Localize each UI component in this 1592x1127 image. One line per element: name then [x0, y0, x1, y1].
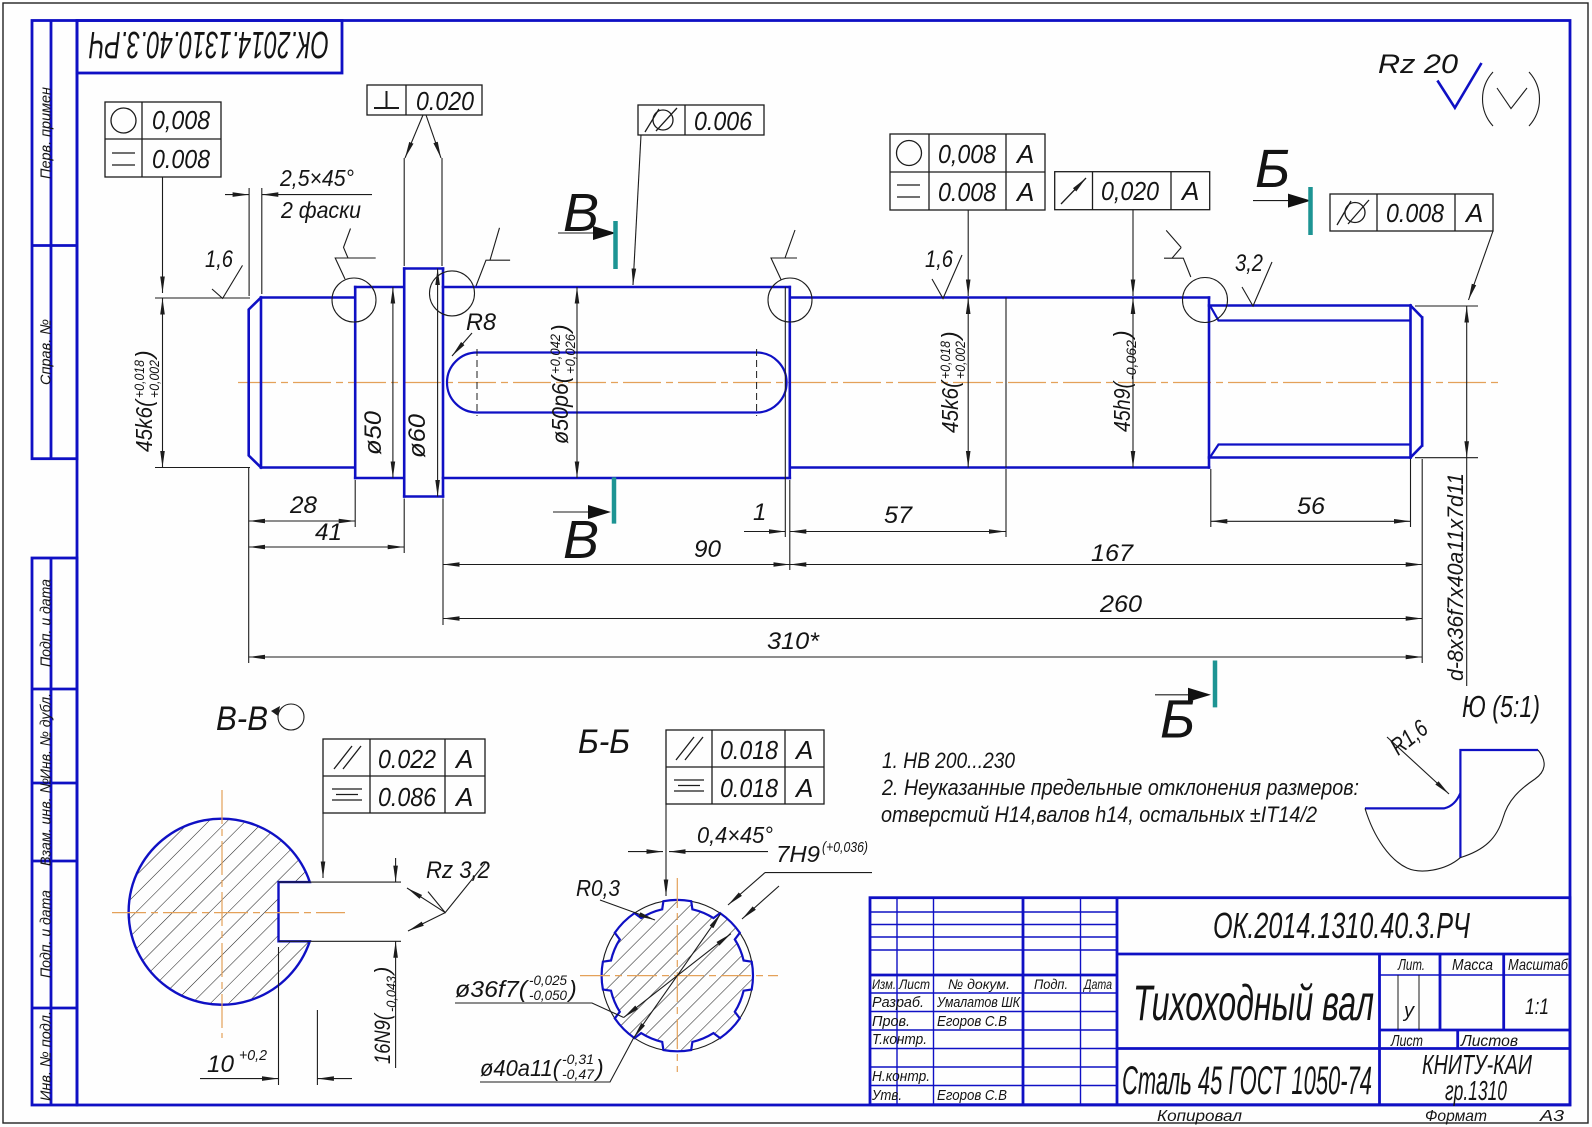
dimension 57	[790, 502, 1006, 532]
tolerance frame circularity/profile left journal	[105, 102, 221, 293]
dimension 41	[249, 519, 405, 547]
keyway depth 10+0,2	[278, 947, 280, 1085]
svg-text:Подп. и дата: Подп. и дата	[38, 579, 55, 667]
shaft collar d60	[404, 269, 443, 497]
tolerance frame V-V	[323, 739, 485, 813]
keyway slot	[447, 349, 787, 416]
16N9 dimension	[395, 858, 397, 882]
section mark B bottom	[553, 477, 614, 570]
svg-text:Изм.: Изм.	[872, 976, 896, 992]
dimension 28	[249, 492, 356, 521]
dimension 90	[443, 536, 790, 565]
svg-text:+0,2: +0,2	[239, 1047, 268, 1064]
shaft section d50	[355, 287, 404, 478]
left stamp boxes group 1	[32, 21, 77, 459]
svg-text:ø36f7(: ø36f7(	[455, 976, 530, 1002]
svg-text:ø50р6(: ø50р6(	[547, 374, 573, 444]
svg-text:45k6(: 45k6(	[937, 379, 963, 433]
surface mark circle at step 2	[430, 228, 511, 316]
svg-text:0,008: 0,008	[938, 139, 996, 169]
svg-text:В: В	[563, 510, 599, 570]
svg-text:+0,026: +0,026	[562, 334, 578, 374]
centerlines	[580, 975, 778, 977]
svg-text:+0,018: +0,018	[131, 360, 147, 398]
svg-text:d-8x36f7x40a11x7d11: d-8x36f7x40a11x7d11	[1443, 473, 1468, 681]
title block	[870, 898, 1570, 1125]
dimension d50	[360, 287, 393, 478]
svg-text:0,020: 0,020	[1101, 176, 1159, 206]
Rz 20 general roughness	[1378, 49, 1539, 126]
left table of title block	[896, 898, 898, 1105]
step face 45h9 to spline	[1208, 298, 1211, 468]
tolerance frame perpendicularity collar	[367, 85, 482, 266]
svg-text:ОК.2014.1310.40.3.РЧ: ОК.2014.1310.40.3.РЧ	[1213, 905, 1471, 946]
svg-text:Сталь 45 ГОСТ 1050-74: Сталь 45 ГОСТ 1050-74	[1122, 1059, 1372, 1103]
dimension 45h9	[1109, 298, 1139, 468]
svg-text:Б: Б	[1160, 690, 1195, 750]
section view V-V	[112, 700, 490, 1085]
svg-text:2 фаски: 2 фаски	[280, 197, 361, 223]
svg-text:Формат: Формат	[1425, 1108, 1487, 1125]
svg-text:0.018: 0.018	[720, 773, 778, 803]
svg-text:Егоров С.В: Егоров С.В	[937, 1013, 1007, 1030]
svg-text:А: А	[1180, 176, 1199, 206]
boundary 45k6 / 45h9	[1005, 298, 1007, 468]
svg-text:Подп. и дата: Подп. и дата	[38, 890, 55, 978]
svg-text:1: 1	[753, 499, 766, 526]
dimension d50p6 with tolerances	[547, 287, 578, 478]
svg-text:41: 41	[315, 519, 342, 546]
svg-text:(+0,036): (+0,036)	[822, 839, 868, 856]
spline inner diameter lines	[1211, 307, 1411, 457]
svg-text:Тихоходный вал: Тихоходный вал	[1133, 975, 1374, 1031]
section mark B top	[558, 183, 616, 269]
section view B-B (spline)	[455, 723, 872, 1082]
surface mark circle at step 4	[1164, 230, 1228, 322]
chamfer 0,4x45	[628, 851, 663, 853]
svg-text:Rz 20: Rz 20	[1378, 49, 1458, 79]
main centerline	[238, 382, 1498, 384]
keyway radius R8	[452, 309, 497, 356]
chamfer dimension 2,5x45	[225, 165, 372, 296]
svg-text:Лист: Лист	[1390, 1033, 1423, 1050]
svg-text:260: 260	[1099, 591, 1143, 618]
svg-text:1,6: 1,6	[925, 246, 954, 273]
svg-text:28: 28	[289, 492, 318, 519]
extension lines below shaft	[249, 459, 1423, 663]
svg-text:10: 10	[207, 1051, 235, 1078]
svg-text:45h9(: 45h9(	[1109, 380, 1135, 432]
svg-text:1:1: 1:1	[1525, 994, 1549, 1019]
dimension 167	[790, 540, 1422, 567]
tolerance frame circularity/profile right journal	[890, 134, 1045, 296]
svg-text:Подп.: Подп.	[1034, 976, 1068, 992]
svg-text:+0,002: +0,002	[952, 341, 968, 379]
roughness 1,6 left journal	[205, 246, 243, 298]
centerlines	[112, 912, 345, 914]
svg-text:+0,002: +0,002	[146, 360, 162, 398]
svg-text:90: 90	[694, 536, 722, 563]
svg-text:Инв. № подл.: Инв. № подл.	[38, 1011, 55, 1101]
lit sub cells	[1397, 975, 1399, 1030]
svg-text:1. НВ 200...230: 1. НВ 200...230	[882, 748, 1016, 773]
spline section outer	[1209, 306, 1422, 458]
dimension 1	[744, 499, 785, 532]
svg-text:Масса: Масса	[1452, 957, 1493, 974]
svg-text:2,5×45°: 2,5×45°	[279, 165, 354, 191]
step face d50p6 to 45k6	[788, 287, 791, 478]
svg-text:А: А	[794, 735, 813, 765]
svg-text:2. Неуказанные предельные откл: 2. Неуказанные предельные отклонения раз…	[881, 775, 1359, 800]
tolerance frame radial runout 0.006	[633, 105, 764, 285]
break lines freeform	[1365, 750, 1544, 871]
keyway width extension lines	[279, 881, 402, 883]
svg-text:45k6(: 45k6(	[131, 398, 157, 452]
shaft section 45k6 left	[249, 298, 356, 468]
svg-text:А: А	[1015, 177, 1034, 207]
svg-text:ОК.2014.1310.40.3.РЧ: ОК.2014.1310.40.3.РЧ	[89, 23, 329, 65]
svg-text:Т.контр.: Т.контр.	[872, 1031, 927, 1048]
svg-text:R0,3: R0,3	[576, 875, 620, 901]
svg-text:-0,050: -0,050	[529, 987, 567, 1003]
top-left rotated doc number box	[77, 21, 342, 74]
svg-text:+0,018: +0,018	[937, 341, 953, 379]
svg-text:0.086: 0.086	[378, 782, 436, 812]
svg-text:№ докум.: № докум.	[948, 976, 1010, 992]
hatched circle with keyway notch	[129, 819, 310, 1005]
svg-text:0,008: 0,008	[152, 105, 210, 135]
svg-text:Б: Б	[1255, 139, 1290, 199]
surface mark circle at step 1	[332, 229, 376, 323]
svg-text:56: 56	[1297, 493, 1326, 520]
shaft section 45k6 right	[790, 298, 1209, 468]
svg-text:Умалатов ШК: Умалатов ШК	[936, 994, 1021, 1011]
detail view Yu (5:1)	[1365, 689, 1544, 871]
svg-text:0.022: 0.022	[378, 744, 436, 774]
spline OD dimension and designation	[1415, 306, 1478, 686]
svg-text:А: А	[794, 773, 813, 803]
section mark B top (letter Б)	[1253, 139, 1311, 235]
surface mark circle at step 3	[768, 230, 812, 322]
svg-text:Егоров С.В: Егоров С.В	[937, 1087, 1007, 1104]
svg-text:А: А	[1464, 198, 1483, 228]
dimension 56	[1211, 493, 1411, 521]
svg-text:-0,043: -0,043	[383, 976, 399, 1012]
svg-text:0.008: 0.008	[1386, 198, 1444, 228]
tolerance frame radial runout spline 0.008	[1330, 194, 1493, 300]
svg-text:у: у	[1402, 1000, 1415, 1022]
svg-text:А: А	[1015, 139, 1034, 169]
svg-text:Инв. № дубл.: Инв. № дубл.	[38, 693, 55, 779]
svg-text:гр.1310: гр.1310	[1445, 1075, 1507, 1106]
left stamp boxes group 2	[32, 558, 77, 1105]
svg-text:А: А	[454, 782, 473, 812]
svg-text:R8: R8	[466, 309, 497, 336]
svg-text:В-В: В-В	[216, 700, 268, 738]
shaft section d50p6	[443, 287, 790, 478]
svg-text:0.020: 0.020	[416, 86, 474, 116]
section mark B bottom (letter Б)	[1155, 661, 1215, 750]
roughness 1,6 right journal	[925, 246, 962, 299]
d36f7 dimension diagonal	[624, 934, 731, 1018]
d40a11 dimension diagonal	[634, 913, 721, 1037]
svg-text:Лит.: Лит.	[1397, 957, 1425, 974]
svg-text:Н.контр.: Н.контр.	[872, 1068, 930, 1085]
dimension 260	[443, 591, 1422, 619]
svg-text:А3: А3	[1539, 1108, 1564, 1125]
svg-text:+0,042: +0,042	[547, 334, 563, 374]
svg-text:Справ. №: Справ. №	[38, 319, 55, 385]
svg-text:167: 167	[1091, 540, 1135, 567]
svg-text:-0,47: -0,47	[562, 1066, 595, 1082]
svg-text:Утв.: Утв.	[871, 1087, 902, 1104]
svg-text:0.018: 0.018	[720, 735, 778, 765]
dimension d60	[404, 269, 438, 497]
svg-text:0.008: 0.008	[938, 177, 996, 207]
svg-text:16N9(: 16N9(	[370, 1012, 395, 1064]
dimension 310*	[249, 628, 1423, 657]
svg-text:310*: 310*	[767, 628, 820, 655]
roughness 3,2 spline	[1235, 250, 1272, 306]
svg-text:А: А	[454, 744, 473, 774]
svg-text:-0,062: -0,062	[1123, 340, 1139, 380]
svg-text:-0,31: -0,31	[562, 1051, 594, 1067]
svg-text:0.008: 0.008	[152, 144, 210, 174]
svg-text:0.006: 0.006	[694, 106, 752, 136]
svg-text:1,6: 1,6	[205, 246, 234, 273]
dimension 45k6 right	[937, 298, 968, 468]
svg-text:Дата: Дата	[1082, 976, 1112, 992]
dimension 45k6 left	[131, 298, 250, 468]
technical notes	[881, 748, 1359, 827]
relief groove 1mm	[784, 287, 786, 478]
blue part edges	[1365, 750, 1538, 858]
outer circle thin	[602, 900, 753, 1051]
svg-text:Ю (5:1): Ю (5:1)	[1462, 689, 1540, 724]
svg-text:0,4×45°: 0,4×45°	[697, 822, 773, 848]
svg-text:Rz 3,2: Rz 3,2	[426, 857, 490, 884]
svg-text:Взам. инв. №: Взам. инв. №	[38, 778, 55, 866]
svg-text:Перв. примен: Перв. примен	[38, 87, 55, 179]
svg-text:ø60: ø60	[404, 413, 431, 458]
svg-text:57: 57	[884, 502, 914, 529]
svg-text:-0,025: -0,025	[529, 972, 567, 988]
tolerance frame runout 0,020	[1055, 172, 1210, 296]
svg-text:ø40а11(: ø40а11(	[480, 1055, 562, 1081]
svg-text:Копировал: Копировал	[1157, 1108, 1242, 1125]
svg-text:7Н9: 7Н9	[776, 841, 820, 867]
svg-text:Лист: Лист	[898, 976, 930, 992]
spline profile hatched	[602, 900, 753, 1051]
svg-text:Листов: Листов	[1460, 1033, 1518, 1050]
svg-text:Б-Б: Б-Б	[578, 723, 630, 761]
svg-text:Разраб.: Разраб.	[872, 994, 924, 1011]
svg-text:3,2: 3,2	[1235, 250, 1263, 277]
svg-text:Пров.: Пров.	[872, 1013, 910, 1030]
svg-text:ø50: ø50	[360, 410, 387, 455]
svg-text:отверстий Н14,валов h14, остал: отверстий Н14,валов h14, остальных ±IT14…	[881, 802, 1317, 827]
svg-text:Масштаб: Масштаб	[1508, 957, 1569, 974]
tolerance frame B-B	[666, 730, 824, 804]
